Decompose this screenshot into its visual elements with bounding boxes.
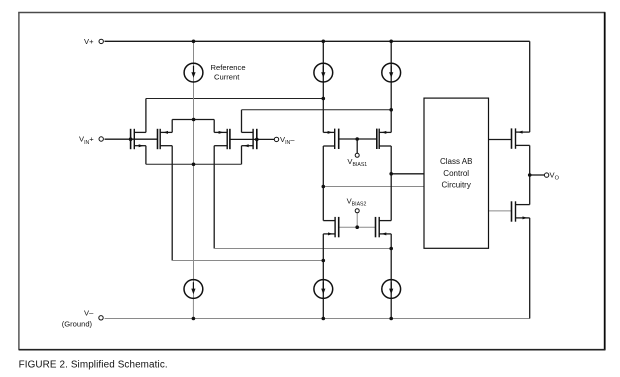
svg-text:(Ground): (Ground): [62, 319, 93, 328]
svg-text:VO: VO: [550, 171, 560, 182]
svg-text:V+: V+: [84, 37, 94, 46]
svg-text:FIGURE 2. Simplified Schematic: FIGURE 2. Simplified Schematic.: [19, 360, 168, 371]
svg-text:Control: Control: [443, 169, 469, 178]
svg-text:VBIAS2: VBIAS2: [347, 196, 367, 207]
svg-text:VIN–: VIN–: [280, 135, 295, 146]
svg-text:Current: Current: [214, 73, 240, 82]
svg-text:VBIAS1: VBIAS1: [347, 157, 367, 168]
svg-text:Circuitry: Circuitry: [442, 181, 471, 190]
svg-text:Reference: Reference: [211, 63, 246, 72]
svg-text:Class AB: Class AB: [440, 157, 472, 166]
svg-text:VIN+: VIN+: [79, 135, 94, 146]
svg-text:V–: V–: [84, 308, 94, 317]
